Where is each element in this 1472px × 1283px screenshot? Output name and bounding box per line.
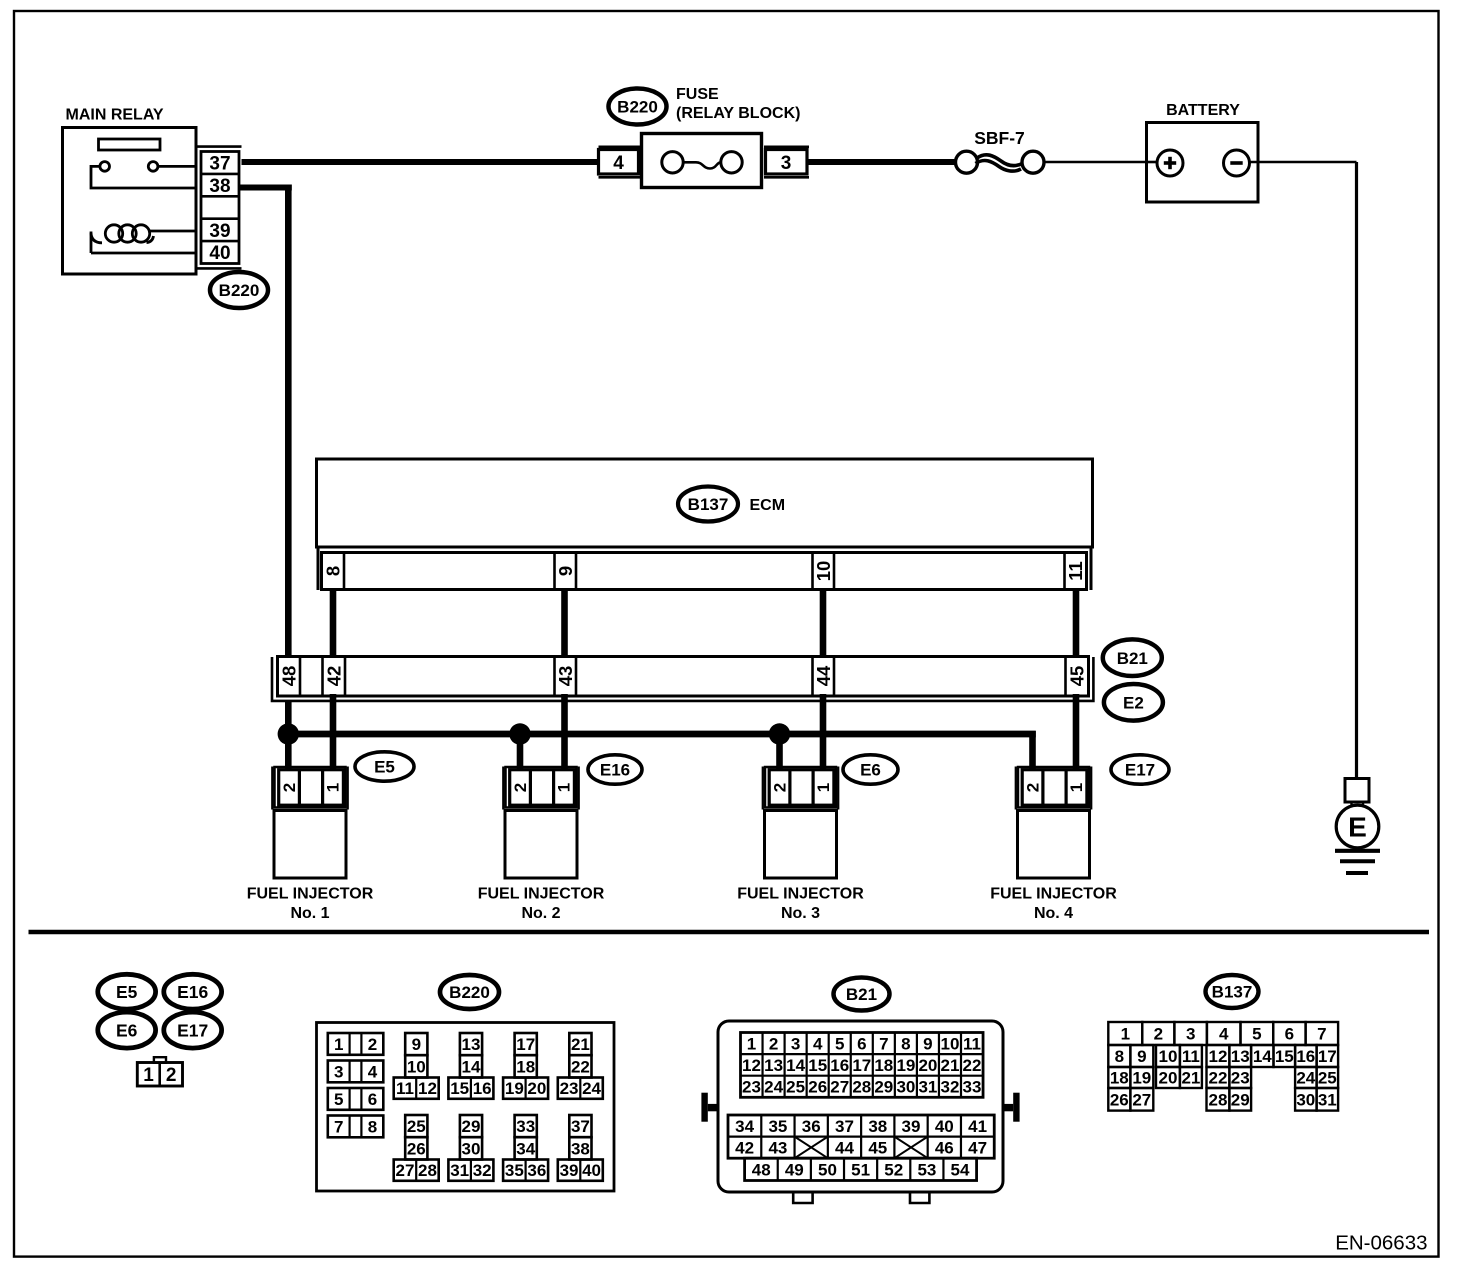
- wire relay 37 to fuse 4: [242, 159, 600, 165]
- svg-text:2: 2: [1024, 783, 1043, 792]
- svg-text:16: 16: [473, 1079, 492, 1098]
- svg-text:33: 33: [516, 1117, 535, 1136]
- svg-text:38: 38: [868, 1117, 887, 1136]
- svg-text:39: 39: [209, 221, 230, 242]
- B220 cells 33 34 35 36: [503, 1115, 548, 1181]
- svg-text:1: 1: [555, 783, 574, 792]
- svg-text:5: 5: [334, 1090, 343, 1109]
- svg-text:26: 26: [1110, 1090, 1129, 1109]
- svg-text:22: 22: [1209, 1069, 1228, 1088]
- junction node injector3: [769, 723, 790, 744]
- wire ECM pin 9 to lower connector: [561, 588, 568, 658]
- svg-text:1: 1: [747, 1034, 756, 1053]
- svg-text:9: 9: [923, 1034, 932, 1053]
- svg-text:30: 30: [462, 1140, 481, 1159]
- B21 bottom grid cells 34-47: [728, 1115, 994, 1158]
- svg-text:11: 11: [1065, 561, 1086, 581]
- wire battery to ground drop: [1250, 162, 1357, 779]
- svg-text:E2: E2: [1123, 693, 1144, 712]
- svg-text:1: 1: [334, 1035, 343, 1054]
- svg-text:43: 43: [555, 666, 576, 687]
- svg-text:29: 29: [1231, 1090, 1250, 1109]
- svg-text:1: 1: [143, 1065, 154, 1086]
- ECM label B137: [678, 487, 785, 522]
- wire pin 44 to injector: [820, 694, 827, 769]
- svg-text:26: 26: [407, 1140, 426, 1159]
- svg-text:E17: E17: [177, 1020, 208, 1040]
- svg-text:45: 45: [1067, 666, 1088, 687]
- wire SBF-7 to battery: [1044, 161, 1147, 164]
- fuse terminal 3: [764, 147, 809, 178]
- svg-text:3: 3: [334, 1063, 343, 1082]
- wire relay 38 down to ECM pin 48: [239, 185, 292, 657]
- svg-text:SBF-7: SBF-7: [974, 128, 1025, 148]
- svg-text:44: 44: [813, 665, 834, 686]
- svg-text:28: 28: [1209, 1090, 1228, 1109]
- wire pin 48 down to ground bus: [285, 701, 292, 734]
- svg-text:52: 52: [884, 1161, 903, 1180]
- svg-text:31: 31: [918, 1078, 937, 1097]
- svg-text:31: 31: [1318, 1090, 1337, 1109]
- svg-text:12: 12: [742, 1056, 761, 1075]
- svg-text:No. 1: No. 1: [290, 905, 329, 922]
- B220 cells 25 26 27 28: [394, 1115, 439, 1181]
- ground bus wire: [288, 731, 1036, 769]
- wire ECM pin 11 to lower connector: [1073, 588, 1080, 658]
- svg-text:10: 10: [407, 1058, 426, 1077]
- svg-text:40: 40: [582, 1161, 601, 1180]
- svg-text:E5: E5: [374, 758, 395, 777]
- connector strip pins 48 42 43 44 45: [278, 657, 1089, 697]
- svg-text:43: 43: [768, 1139, 787, 1158]
- svg-text:6: 6: [1285, 1025, 1294, 1044]
- svg-text:4: 4: [813, 1034, 823, 1053]
- svg-text:2: 2: [771, 783, 790, 792]
- svg-text:7: 7: [334, 1118, 343, 1137]
- svg-text:17: 17: [1318, 1047, 1337, 1066]
- svg-text:23: 23: [742, 1078, 761, 1097]
- svg-text:6: 6: [368, 1090, 377, 1109]
- svg-text:45: 45: [868, 1139, 887, 1158]
- connector label E2: [1104, 684, 1163, 721]
- svg-text:12: 12: [1209, 1047, 1228, 1066]
- svg-text:18: 18: [1110, 1069, 1129, 1088]
- svg-text:2: 2: [769, 1034, 778, 1053]
- svg-text:2: 2: [166, 1065, 177, 1086]
- svg-text:20: 20: [918, 1056, 937, 1075]
- svg-text:17: 17: [852, 1056, 871, 1075]
- svg-text:FUEL INJECTOR: FUEL INJECTOR: [990, 886, 1117, 903]
- svg-text:B21: B21: [1117, 649, 1148, 668]
- wire pin 45 to injector: [1073, 694, 1080, 769]
- ground E: [1335, 779, 1380, 874]
- pinout label B220: [440, 975, 499, 1009]
- svg-text:6: 6: [857, 1034, 866, 1053]
- B137 grid row 4: [1108, 1088, 1338, 1111]
- pinout label B21: [834, 978, 890, 1011]
- svg-text:22: 22: [963, 1056, 982, 1075]
- svg-text:38: 38: [209, 176, 230, 197]
- svg-text:2: 2: [1154, 1025, 1163, 1044]
- B220 cells 3 4: [328, 1061, 384, 1083]
- junction node injector2: [509, 723, 530, 744]
- fusible link SBF-7: [956, 128, 1045, 173]
- fuel injector No.2 body: [478, 811, 605, 923]
- svg-text:49: 49: [785, 1161, 804, 1180]
- connector B220 pinout box: [317, 1023, 615, 1192]
- svg-text:42: 42: [735, 1139, 754, 1158]
- B21 bottom grid cells 48-54: [745, 1158, 977, 1180]
- B220 cells 13 14 15 16: [448, 1033, 493, 1099]
- fuse body SBF: [642, 134, 762, 188]
- svg-text:27: 27: [830, 1078, 849, 1097]
- svg-text:34: 34: [516, 1140, 535, 1159]
- svg-text:15: 15: [450, 1079, 469, 1098]
- svg-text:3: 3: [1186, 1025, 1195, 1044]
- svg-text:38: 38: [571, 1140, 590, 1159]
- svg-text:8: 8: [1115, 1047, 1124, 1066]
- fuel injector No.3 connector: [763, 767, 838, 810]
- svg-text:19: 19: [505, 1079, 524, 1098]
- fuel injector No.4 connector: [1016, 767, 1091, 810]
- svg-text:9: 9: [1137, 1047, 1146, 1066]
- svg-text:37: 37: [571, 1117, 590, 1136]
- svg-text:29: 29: [874, 1078, 893, 1097]
- wire bus to injector2 pin2: [517, 734, 524, 769]
- svg-text:9: 9: [412, 1035, 421, 1054]
- connector label E17: [1111, 755, 1169, 784]
- svg-text:15: 15: [1275, 1047, 1294, 1066]
- svg-text:30: 30: [1296, 1090, 1315, 1109]
- svg-text:B137: B137: [1212, 983, 1253, 1002]
- wire fuse 3 to SBF-7: [807, 159, 955, 165]
- svg-text:11: 11: [963, 1034, 981, 1053]
- svg-text:14: 14: [786, 1056, 805, 1075]
- section divider line: [29, 930, 1430, 935]
- svg-text:46: 46: [935, 1139, 954, 1158]
- B137 grid row 2: [1108, 1045, 1338, 1067]
- svg-text:MAIN RELAY: MAIN RELAY: [66, 107, 164, 124]
- connector label E5: [355, 752, 414, 781]
- B220 cells 1 2: [328, 1033, 384, 1055]
- svg-text:B220: B220: [449, 983, 490, 1002]
- connector label E6: [843, 755, 898, 784]
- svg-text:11: 11: [396, 1079, 414, 1098]
- wire bus to injector3 pin2: [776, 734, 783, 769]
- svg-text:5: 5: [1252, 1025, 1261, 1044]
- svg-text:5: 5: [835, 1034, 844, 1053]
- svg-text:2: 2: [280, 783, 299, 792]
- svg-text:25: 25: [407, 1117, 426, 1136]
- svg-text:10: 10: [1159, 1047, 1178, 1066]
- connector label B21: [1103, 639, 1162, 676]
- svg-text:24: 24: [582, 1079, 601, 1098]
- figure number EN-06633: [1335, 1232, 1427, 1255]
- svg-text:1: 1: [1121, 1025, 1130, 1044]
- B220 cells 29 30 31 32: [448, 1115, 493, 1181]
- svg-text:21: 21: [1181, 1069, 1200, 1088]
- svg-text:B220: B220: [219, 281, 260, 300]
- svg-text:29: 29: [462, 1117, 481, 1136]
- svg-text:E5: E5: [116, 982, 138, 1002]
- svg-text:E17: E17: [1125, 761, 1155, 780]
- svg-text:12: 12: [418, 1079, 437, 1098]
- connector B21 housing: [701, 1021, 1019, 1203]
- wire ECM pin 10 to lower connector: [820, 588, 827, 658]
- pinout label B137: [1206, 975, 1259, 1008]
- svg-text:18: 18: [874, 1056, 893, 1075]
- svg-text:14: 14: [462, 1058, 481, 1077]
- svg-text:50: 50: [818, 1161, 837, 1180]
- svg-text:28: 28: [852, 1078, 871, 1097]
- svg-text:24: 24: [1296, 1069, 1315, 1088]
- svg-text:17: 17: [516, 1035, 535, 1054]
- ECM connector strip pins 8 9 10 11: [322, 553, 1087, 590]
- svg-text:BATTERY: BATTERY: [1166, 102, 1240, 119]
- battery: [1147, 102, 1259, 202]
- svg-text:ECM: ECM: [750, 497, 786, 514]
- svg-text:E16: E16: [600, 761, 630, 780]
- svg-text:1: 1: [324, 783, 343, 792]
- svg-text:40: 40: [209, 243, 230, 264]
- svg-text:31: 31: [450, 1161, 469, 1180]
- B21 top grid cells 1-33: [741, 1033, 984, 1098]
- pinout label E16: [164, 974, 222, 1009]
- B220 cells 9 10 11 12: [394, 1033, 439, 1099]
- svg-text:EN-06633: EN-06633: [1335, 1232, 1427, 1255]
- relay coil: [91, 225, 197, 253]
- fuel injector No.2 connector: [503, 767, 578, 810]
- B220 cells 17 18 19 20: [503, 1033, 548, 1099]
- svg-text:7: 7: [1317, 1025, 1326, 1044]
- pinout label E6: [98, 1012, 156, 1048]
- svg-text:2: 2: [511, 783, 530, 792]
- svg-text:E6: E6: [860, 761, 881, 780]
- connector label B220 (main relay): [210, 272, 268, 308]
- svg-text:25: 25: [1318, 1069, 1337, 1088]
- fuse label B220: [609, 89, 667, 125]
- fuse terminal 4: [599, 147, 642, 178]
- svg-text:25: 25: [786, 1078, 805, 1097]
- B220 cells 5 6: [328, 1088, 384, 1110]
- svg-text:E16: E16: [177, 982, 208, 1002]
- svg-text:1: 1: [814, 783, 833, 792]
- svg-text:21: 21: [571, 1035, 590, 1054]
- svg-text:18: 18: [516, 1058, 535, 1077]
- svg-text:13: 13: [764, 1056, 783, 1075]
- svg-text:40: 40: [935, 1117, 954, 1136]
- fuel injector No.3 body: [737, 811, 864, 923]
- svg-text:16: 16: [1296, 1047, 1315, 1066]
- svg-text:27: 27: [1132, 1090, 1151, 1109]
- svg-text:No. 2: No. 2: [521, 905, 560, 922]
- relay connector pins 37 38 39 40: [197, 147, 242, 269]
- fuse name text: [676, 86, 800, 122]
- svg-text:4: 4: [1219, 1025, 1229, 1044]
- svg-text:FUEL INJECTOR: FUEL INJECTOR: [247, 886, 374, 903]
- svg-text:20: 20: [527, 1079, 546, 1098]
- svg-text:44: 44: [835, 1139, 854, 1158]
- svg-text:9: 9: [555, 566, 576, 576]
- svg-text:13: 13: [462, 1035, 481, 1054]
- svg-text:33: 33: [963, 1078, 982, 1097]
- svg-text:8: 8: [368, 1118, 377, 1137]
- svg-text:53: 53: [917, 1161, 936, 1180]
- svg-text:54: 54: [951, 1161, 970, 1180]
- junction node injector1: [278, 723, 299, 744]
- svg-text:FUSE: FUSE: [676, 86, 719, 103]
- svg-text:FUEL INJECTOR: FUEL INJECTOR: [737, 886, 864, 903]
- svg-text:No. 4: No. 4: [1034, 905, 1073, 922]
- svg-text:20: 20: [1159, 1069, 1178, 1088]
- svg-text:13: 13: [1231, 1047, 1250, 1066]
- svg-text:No. 3: No. 3: [781, 905, 820, 922]
- svg-text:34: 34: [735, 1117, 754, 1136]
- svg-text:48: 48: [278, 666, 299, 687]
- svg-text:39: 39: [560, 1161, 579, 1180]
- svg-text:3: 3: [791, 1034, 800, 1053]
- svg-text:B137: B137: [688, 495, 729, 514]
- B137 grid row 1 cells 1-7: [1108, 1022, 1338, 1045]
- svg-text:48: 48: [752, 1161, 771, 1180]
- battery minus terminal: [1224, 150, 1250, 176]
- svg-text:37: 37: [835, 1117, 854, 1136]
- svg-text:39: 39: [902, 1117, 921, 1136]
- svg-text:14: 14: [1253, 1047, 1272, 1066]
- svg-text:15: 15: [808, 1056, 827, 1075]
- wire bus to injector1 pin2: [285, 734, 292, 769]
- fuel injector No.4 body: [990, 811, 1117, 923]
- svg-text:7: 7: [879, 1034, 888, 1053]
- svg-text:23: 23: [560, 1079, 579, 1098]
- pinout label E17: [164, 1012, 222, 1048]
- B220 cells 37 38 39 40: [558, 1115, 603, 1181]
- svg-text:(RELAY BLOCK): (RELAY BLOCK): [676, 105, 800, 122]
- connector label E16: [588, 755, 642, 784]
- svg-text:E: E: [1348, 812, 1367, 843]
- svg-text:8: 8: [322, 566, 343, 576]
- svg-text:47: 47: [968, 1139, 987, 1158]
- B220 cells 21 22 23 24: [558, 1033, 603, 1099]
- svg-text:E6: E6: [116, 1020, 138, 1040]
- svg-text:22: 22: [571, 1058, 590, 1077]
- svg-text:21: 21: [941, 1056, 960, 1075]
- ECM box: [317, 459, 1093, 590]
- svg-text:10: 10: [941, 1034, 960, 1053]
- svg-text:51: 51: [851, 1161, 870, 1180]
- fuel injector No.1 body: [247, 811, 374, 923]
- svg-text:B220: B220: [617, 98, 658, 117]
- svg-text:36: 36: [802, 1117, 821, 1136]
- svg-text:19: 19: [1132, 1069, 1151, 1088]
- B220 cells 7 8: [328, 1116, 384, 1138]
- svg-text:FUEL INJECTOR: FUEL INJECTOR: [478, 886, 605, 903]
- svg-text:27: 27: [395, 1161, 414, 1180]
- pinout label E5: [98, 974, 156, 1009]
- svg-text:4: 4: [368, 1063, 378, 1082]
- svg-text:19: 19: [896, 1056, 915, 1075]
- svg-text:36: 36: [527, 1161, 546, 1180]
- main relay: [63, 107, 197, 275]
- svg-text:35: 35: [768, 1117, 787, 1136]
- svg-text:32: 32: [941, 1078, 960, 1097]
- connector strip B21/E2 tray: [272, 657, 1093, 701]
- svg-text:B21: B21: [846, 985, 877, 1004]
- svg-text:26: 26: [808, 1078, 827, 1097]
- svg-text:35: 35: [505, 1161, 524, 1180]
- svg-text:1: 1: [1067, 783, 1086, 792]
- svg-text:23: 23: [1231, 1069, 1250, 1088]
- fuel injector No.1 connector: [272, 767, 347, 810]
- svg-text:8: 8: [901, 1034, 910, 1053]
- svg-text:3: 3: [781, 153, 792, 174]
- svg-text:28: 28: [418, 1161, 437, 1180]
- wire pin 42 to injector: [330, 694, 337, 769]
- svg-text:30: 30: [896, 1078, 915, 1097]
- svg-text:41: 41: [968, 1117, 987, 1136]
- svg-text:37: 37: [209, 154, 230, 175]
- svg-text:42: 42: [323, 666, 344, 687]
- relay contact: [91, 162, 197, 188]
- svg-text:4: 4: [613, 153, 624, 174]
- wire pin 43 to injector: [561, 694, 568, 769]
- svg-text:2: 2: [368, 1035, 377, 1054]
- svg-text:16: 16: [830, 1056, 849, 1075]
- wire ECM pin 8 to lower connector: [330, 588, 337, 658]
- svg-text:11: 11: [1182, 1047, 1200, 1066]
- svg-text:32: 32: [473, 1161, 492, 1180]
- svg-text:24: 24: [764, 1078, 783, 1097]
- battery plus terminal: [1157, 150, 1183, 176]
- B137 grid row 3: [1108, 1067, 1338, 1088]
- svg-text:10: 10: [813, 561, 834, 582]
- injector connector pinout 1 2: [137, 1057, 182, 1086]
